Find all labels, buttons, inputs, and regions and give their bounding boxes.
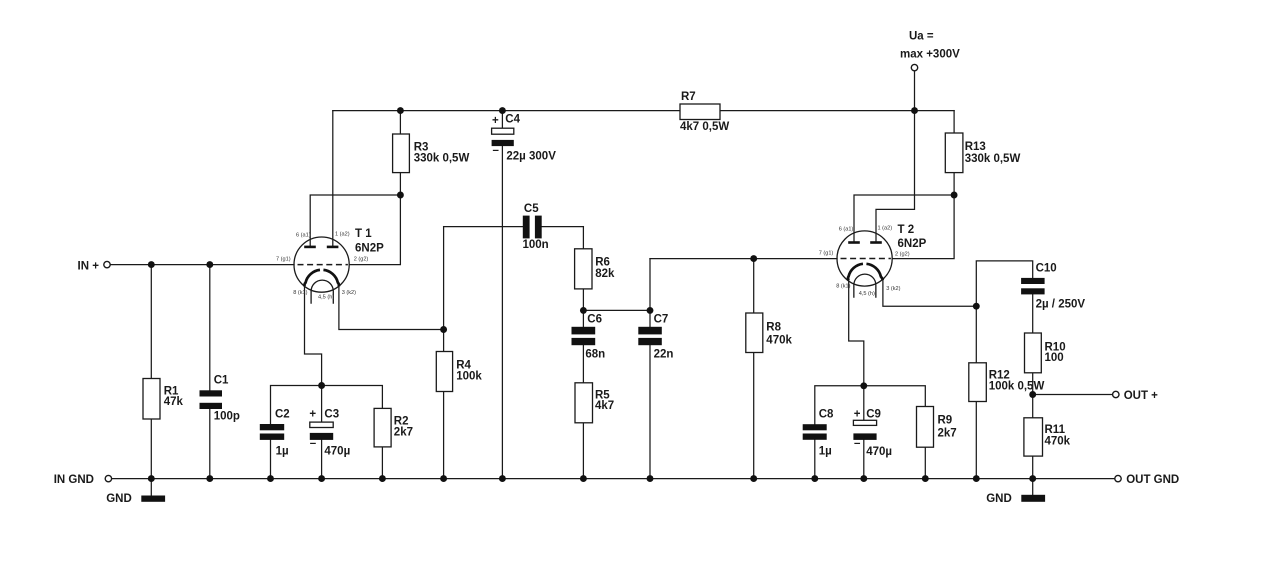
svg-text:4,5 (h): 4,5 (h): [318, 295, 334, 301]
wire R8 top: [753, 259, 755, 313]
junction bus C8: [811, 475, 818, 482]
wire R2 to ground bus: [381, 447, 383, 479]
wire node to T2 grid g2: [892, 195, 954, 259]
svg-text:IN +: IN +: [78, 260, 100, 272]
svg-text:R11: R11: [1045, 424, 1066, 436]
T1 cathode k2 arc: [323, 270, 339, 286]
svg-text:C3: C3: [324, 408, 339, 420]
wire C10 bottom to R10 top: [1032, 294, 1034, 333]
svg-text:2µ / 250V: 2µ / 250V: [1036, 298, 1086, 310]
T1 grid dashed line: [298, 264, 348, 266]
svg-text:IN GND: IN GND: [54, 474, 94, 486]
triode T2 envelope: [837, 231, 892, 286]
svg-text:4k7 0,5W: 4k7 0,5W: [680, 121, 729, 133]
svg-text:GND: GND: [986, 493, 1012, 505]
junction T1 k1 node: [318, 382, 325, 389]
wire T1 anode a2 to rail: [332, 111, 334, 246]
svg-text:82k: 82k: [595, 268, 615, 280]
wire R3 top to rail: [399, 111, 401, 134]
svg-text:6N2P: 6N2P: [898, 238, 927, 250]
T1 anode a1 bar: [304, 246, 316, 249]
wire R12 top: [975, 306, 977, 363]
junction IN wire R1: [148, 261, 155, 268]
svg-text:22n: 22n: [654, 348, 674, 360]
svg-text:100n: 100n: [523, 239, 549, 251]
svg-text:C10: C10: [1036, 263, 1057, 275]
capacitor C8 plates: [803, 424, 827, 430]
wire C4 bottom to ground bus: [501, 146, 503, 479]
junction bus C2: [267, 475, 274, 482]
svg-text:22µ 300V: 22µ 300V: [506, 151, 556, 163]
wire T1 anode a1 to R3 bottom node: [310, 195, 400, 246]
svg-text:2k7: 2k7: [394, 427, 413, 439]
wire rail to C4 top: [501, 111, 503, 129]
wire R11 bottom to ground bus: [1032, 456, 1034, 479]
resistor R9: [917, 407, 934, 448]
svg-text:3 (k2): 3 (k2): [342, 290, 356, 296]
junction rail C4: [499, 107, 506, 114]
svg-text:330k 0,5W: 330k 0,5W: [414, 153, 470, 165]
wire k1 node to C2: [271, 386, 322, 425]
wire C8 to ground bus: [814, 440, 816, 479]
junction bus C3: [318, 475, 325, 482]
svg-text:1 (a2): 1 (a2): [335, 232, 350, 238]
wire C9 to ground bus: [863, 440, 865, 479]
junction bus C7: [647, 475, 654, 482]
svg-text:470k: 470k: [1045, 435, 1071, 447]
wire R12 bottom to ground bus: [975, 402, 977, 479]
svg-text:470µ: 470µ: [866, 446, 892, 458]
wire k2 node up to C5 and down to R4: [443, 227, 445, 352]
T2 cathode k1 arc: [848, 264, 863, 280]
junction R3 bottom node: [397, 192, 404, 199]
resistor R10: [1025, 333, 1042, 373]
wire IN+ to T1 grid g1: [111, 264, 294, 266]
wire T2 cathode k1 to node: [849, 280, 864, 386]
svg-text:R13: R13: [965, 141, 986, 153]
svg-text:100: 100: [1045, 352, 1064, 364]
wire C7 node to T2 grid g1: [650, 258, 837, 260]
wire R6 bottom to node: [582, 289, 584, 311]
wire B+ rail left segment: [333, 110, 680, 112]
wire T2 k1 node to C8: [815, 386, 864, 424]
terminal OUT+: [1113, 391, 1119, 397]
wire T2 cathode k2 to output node: [883, 280, 976, 307]
resistor R12: [969, 363, 987, 402]
wire R5 bottom to ground bus: [582, 423, 584, 479]
wire T1 cathode k1 down to node: [305, 285, 322, 386]
svg-text:–: –: [493, 145, 500, 157]
svg-text:C7: C7: [654, 313, 669, 325]
capacitor C2 plates: [260, 424, 284, 430]
svg-text:6 (a1): 6 (a1): [839, 227, 854, 233]
junction bus C1: [206, 475, 213, 482]
junction bus R2: [379, 475, 386, 482]
svg-text:330k 0,5W: 330k 0,5W: [965, 153, 1021, 165]
junction T2 k1 node: [860, 382, 867, 389]
wire R9 to ground bus: [924, 447, 926, 478]
T2 cathode k2 arc: [866, 264, 882, 280]
T2 heater: [854, 274, 876, 298]
svg-text:R7: R7: [681, 91, 696, 103]
svg-text:3 (k2): 3 (k2): [886, 286, 900, 292]
wire C1 bottom to ground bus: [209, 409, 211, 479]
T2 grid dashed line: [841, 258, 891, 260]
svg-text:max +300V: max +300V: [900, 49, 960, 61]
junction C6 top node: [580, 307, 587, 314]
svg-text:+: +: [854, 408, 861, 420]
capacitor C4 positive plate: [492, 128, 514, 134]
wire T2 grid node down to C7 top: [649, 259, 651, 327]
junction bus C4: [499, 475, 506, 482]
junction bus R4: [440, 475, 447, 482]
wire T1 cathode k2 to node: [339, 285, 444, 330]
resistor R8: [746, 313, 763, 353]
svg-text:C9: C9: [866, 408, 881, 420]
resistor R13: [945, 133, 963, 173]
junction rail Ua: [911, 107, 918, 114]
wire R8 bottom to ground bus: [753, 353, 755, 479]
svg-text:R6: R6: [595, 257, 610, 269]
capacitor C9 negative plate: [853, 433, 876, 440]
wire C6 bottom to R5: [582, 345, 584, 383]
svg-text:OUT GND: OUT GND: [1126, 474, 1179, 486]
wire C6 node to C7 node: [583, 309, 650, 311]
svg-text:47k: 47k: [164, 396, 184, 408]
junction OUT node: [1029, 391, 1036, 398]
T2 anode a2 bar: [870, 241, 882, 244]
wire R4 bottom to ground bus: [443, 392, 445, 479]
svg-text:470k: 470k: [766, 334, 792, 346]
resistor R11: [1024, 418, 1043, 456]
svg-text:100k: 100k: [456, 370, 482, 382]
wire rail corner down to R13 top: [953, 111, 955, 133]
svg-text:1µ: 1µ: [819, 445, 832, 457]
svg-text:R9: R9: [938, 414, 953, 426]
capacitor C4 negative plate: [492, 140, 514, 146]
junction C7 top node: [647, 307, 654, 314]
terminal IN+: [104, 261, 110, 267]
wire C7 bottom to ground bus: [649, 345, 651, 478]
wire R1 top: [150, 265, 152, 379]
svg-text:7 (g1): 7 (g1): [276, 257, 291, 263]
ground symbol right: [1021, 495, 1045, 502]
wire C5 to R6 top: [582, 227, 584, 249]
wire node to C6 top: [582, 310, 584, 326]
svg-text:+: +: [492, 115, 499, 127]
svg-text:6 (a1): 6 (a1): [296, 233, 311, 239]
junction bus R5: [580, 475, 587, 482]
wire C1 top: [209, 265, 211, 391]
wire R3 bottom node: [399, 173, 401, 195]
junction rail R3: [397, 107, 404, 114]
T1 cathode k1 arc: [304, 270, 320, 286]
wire R1 bottom to ground bus: [150, 419, 152, 479]
capacitor C7 plates: [638, 327, 662, 335]
wire Ua supply down to T2 anode a2: [876, 71, 915, 241]
T1 anode a2 bar: [327, 246, 339, 249]
wire node to T1 grid g2: [349, 195, 400, 265]
svg-text:R8: R8: [766, 321, 781, 333]
wire output node bridge to C10: [976, 261, 1032, 306]
svg-text:4,5 (h): 4,5 (h): [859, 291, 875, 297]
svg-text:8 (k1): 8 (k1): [836, 284, 850, 290]
svg-text:1µ: 1µ: [276, 446, 289, 458]
junction bus R1: [148, 475, 155, 482]
resistor R5: [575, 383, 593, 423]
junction bus R12: [973, 475, 980, 482]
wire T2 k1 node to C9: [863, 386, 865, 421]
capacitor C9 positive plate: [853, 420, 876, 425]
svg-text:1 (a2): 1 (a2): [878, 226, 893, 232]
wire k1 node to R2: [322, 386, 383, 409]
wire k1 node to C3: [321, 386, 323, 423]
svg-text:C2: C2: [275, 408, 290, 420]
resistor R1: [143, 379, 160, 420]
wire B+ rail right segment: [720, 110, 954, 112]
svg-text:2 (g2): 2 (g2): [354, 257, 369, 263]
wire OUT node to OUT+ terminal: [1033, 394, 1113, 396]
svg-text:T 1: T 1: [355, 228, 372, 240]
wire C2 to ground bus: [270, 440, 272, 479]
wire C5 left lead: [444, 226, 523, 228]
svg-text:OUT +: OUT +: [1124, 390, 1158, 402]
svg-text:T 2: T 2: [898, 224, 915, 236]
T1 heater: [311, 280, 333, 304]
wire node to T2 anode a1: [854, 195, 954, 241]
wire T2 k1 node to R9: [864, 386, 926, 407]
capacitor C6 plates: [572, 327, 596, 335]
junction T2 grid R8: [750, 255, 757, 262]
svg-text:C8: C8: [819, 408, 834, 420]
svg-text:8 (k1): 8 (k1): [293, 290, 307, 296]
resistor R6: [575, 249, 592, 289]
svg-text:–: –: [854, 438, 861, 450]
ground symbol left: [141, 496, 165, 502]
resistor R3: [393, 134, 410, 173]
wire R10 bottom to OUT node: [1032, 373, 1034, 395]
capacitor C3 positive plate: [310, 422, 333, 427]
wire R13 bottom to node: [953, 173, 955, 195]
capacitor C3 negative plate: [310, 433, 333, 440]
resistor R2: [374, 408, 391, 447]
capacitor C1 plates: [200, 390, 223, 396]
triode T1 envelope: [294, 237, 349, 292]
terminal IN GND: [105, 475, 111, 481]
svg-text:100p: 100p: [214, 411, 240, 423]
wire C5 right lead: [542, 226, 584, 228]
svg-text:Ua =: Ua =: [909, 31, 934, 43]
svg-text:+: +: [309, 408, 316, 420]
wire C3 to ground bus: [321, 440, 323, 479]
svg-text:470µ: 470µ: [324, 446, 350, 458]
terminal OUT GND: [1115, 475, 1121, 481]
wire OUT node to R11 top: [1032, 395, 1034, 418]
svg-text:–: –: [310, 437, 317, 449]
junction T2 k2 output node: [973, 303, 980, 310]
junction bus R8: [750, 475, 757, 482]
svg-text:4k7: 4k7: [595, 400, 614, 412]
svg-text:2 (g2): 2 (g2): [895, 252, 910, 258]
junction bus C9: [860, 475, 867, 482]
svg-text:100k 0,5W: 100k 0,5W: [989, 381, 1045, 393]
wire right ground stub: [1032, 479, 1034, 495]
svg-text:R12: R12: [989, 369, 1010, 381]
svg-text:C5: C5: [524, 203, 539, 215]
svg-text:6N2P: 6N2P: [355, 243, 384, 255]
svg-text:7 (g1): 7 (g1): [819, 250, 834, 256]
junction IN wire C1: [206, 261, 213, 268]
svg-text:C4: C4: [505, 113, 520, 125]
junction bus R9: [922, 475, 929, 482]
T2 anode a1 bar: [848, 241, 860, 244]
svg-text:C6: C6: [587, 313, 602, 325]
resistor R4: [436, 352, 452, 392]
wire ground bus: [112, 478, 1115, 480]
svg-text:2k7: 2k7: [938, 427, 957, 439]
svg-text:GND: GND: [106, 493, 132, 505]
resistor R7: [680, 104, 720, 120]
capacitor C10 plates: [1021, 278, 1045, 284]
junction bus R11: [1029, 475, 1036, 482]
svg-text:C1: C1: [214, 375, 229, 387]
svg-text:68n: 68n: [585, 348, 605, 360]
capacitor C5 plates: [523, 216, 530, 239]
junction T1 k2 node: [440, 326, 447, 333]
wire left ground stub: [150, 479, 152, 496]
terminal Ua: [911, 64, 917, 70]
junction R13 bottom node: [951, 192, 958, 199]
